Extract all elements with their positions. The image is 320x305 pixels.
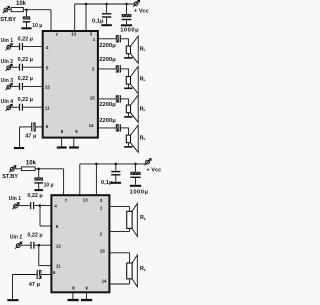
svg-text:0,22 μ: 0,22 μ bbox=[18, 36, 33, 42]
svg-text:0,22 μ: 0,22 μ bbox=[27, 233, 42, 239]
svg-text:2200μ: 2200μ bbox=[99, 43, 116, 49]
svg-text:10 μ: 10 μ bbox=[44, 183, 54, 189]
svg-text:12: 12 bbox=[56, 243, 61, 248]
svg-text:+ Vcc: + Vcc bbox=[146, 168, 161, 174]
svg-text:47 μ: 47 μ bbox=[25, 134, 37, 140]
svg-text:+ Vcc: + Vcc bbox=[134, 9, 149, 15]
svg-text:13: 13 bbox=[71, 32, 76, 37]
svg-text:0,22 μ: 0,22 μ bbox=[18, 97, 33, 103]
svg-text:13: 13 bbox=[83, 198, 88, 203]
svg-text:15: 15 bbox=[90, 95, 95, 100]
svg-text:11: 11 bbox=[45, 105, 50, 110]
svg-text:14: 14 bbox=[89, 123, 94, 128]
svg-text:47 μ: 47 μ bbox=[29, 282, 41, 288]
svg-text:ST.BY: ST.BY bbox=[2, 174, 18, 180]
svg-text:1000μ: 1000μ bbox=[120, 28, 139, 34]
svg-text:1000μ: 1000μ bbox=[130, 190, 149, 196]
svg-text:10k: 10k bbox=[16, 1, 27, 7]
svg-text:ST.BY: ST.BY bbox=[0, 17, 16, 23]
svg-text:15: 15 bbox=[100, 248, 105, 253]
svg-text:2200μ: 2200μ bbox=[99, 102, 116, 108]
svg-text:0,1μ: 0,1μ bbox=[101, 180, 113, 186]
svg-text:2200μ: 2200μ bbox=[99, 57, 116, 63]
svg-text:14: 14 bbox=[102, 278, 107, 283]
svg-text:0,22 μ: 0,22 μ bbox=[27, 193, 42, 199]
svg-text:2200μ: 2200μ bbox=[99, 118, 116, 124]
svg-text:11: 11 bbox=[56, 263, 61, 268]
svg-text:0,22 μ: 0,22 μ bbox=[18, 76, 33, 82]
svg-text:10k: 10k bbox=[26, 161, 37, 167]
svg-text:0,22 μ: 0,22 μ bbox=[18, 57, 33, 63]
svg-text:Uin 2: Uin 2 bbox=[10, 234, 22, 240]
svg-text:Uin 1: Uin 1 bbox=[9, 196, 21, 202]
svg-text:0,1μ: 0,1μ bbox=[92, 19, 104, 25]
svg-text:12: 12 bbox=[45, 85, 50, 90]
svg-text:10 μ: 10 μ bbox=[32, 23, 42, 29]
